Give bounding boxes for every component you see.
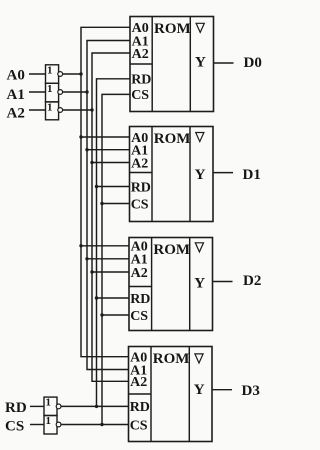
junction A1 bus bbox=[85, 90, 88, 93]
wire Y3 output bbox=[213, 281, 233, 283]
svg-text:Y: Y bbox=[195, 55, 206, 71]
svg-text:RD: RD bbox=[130, 292, 150, 307]
rom U2 bbox=[130, 127, 214, 222]
buffer A1 bbox=[46, 83, 63, 102]
buffer CS bbox=[44, 415, 61, 434]
svg-text:CS: CS bbox=[130, 418, 148, 433]
junction ROM3 A1 bbox=[85, 257, 88, 260]
rom U1 bbox=[130, 17, 214, 112]
wire A1 vertical bus bbox=[87, 41, 130, 370]
svg-text:D2: D2 bbox=[243, 273, 261, 289]
wire A0 vertical bus bbox=[81, 27, 130, 356]
wire Y4 output bbox=[212, 389, 232, 391]
svg-text:1: 1 bbox=[47, 64, 53, 76]
svg-text:A0: A0 bbox=[7, 68, 25, 84]
wire CS vertical bus bbox=[102, 94, 130, 424]
wire ROM3 RD branch bbox=[97, 297, 130, 299]
wire ROM3 A1 branch bbox=[87, 258, 129, 260]
wire RD buffer to ROM4 RD pin bbox=[61, 405, 128, 407]
svg-text:CS: CS bbox=[131, 88, 149, 103]
svg-text:CS: CS bbox=[131, 197, 149, 212]
svg-text:A2: A2 bbox=[131, 156, 148, 171]
wire RD vertical bus bbox=[97, 79, 131, 407]
svg-text:A2: A2 bbox=[132, 47, 149, 62]
wire A0 label to buffer bbox=[29, 73, 46, 75]
svg-text:CS: CS bbox=[5, 418, 24, 434]
junction ROM3 A0 bbox=[79, 244, 82, 247]
junction ROM2 A0 bbox=[79, 135, 82, 138]
wire ROM3 A2 branch bbox=[92, 271, 129, 273]
junction RD bus bbox=[95, 405, 98, 408]
svg-text:1: 1 bbox=[46, 397, 52, 409]
svg-text:A2: A2 bbox=[7, 106, 25, 122]
buffer RD bbox=[44, 397, 61, 416]
svg-text:A2: A2 bbox=[130, 375, 147, 390]
buffer A2 bbox=[46, 102, 63, 120]
rom U4 bbox=[129, 347, 213, 442]
wire ROM2 RD branch bbox=[97, 186, 130, 188]
wire Y1 output bbox=[214, 62, 234, 64]
svg-text:Y: Y bbox=[194, 382, 205, 398]
junction ROM3 CS bbox=[100, 313, 103, 316]
svg-text:1: 1 bbox=[47, 102, 53, 114]
junction ROM2 A1 bbox=[85, 148, 88, 151]
svg-text:1: 1 bbox=[47, 83, 53, 95]
wire buffer A0 output to bus bbox=[63, 73, 81, 75]
buffer A0 bbox=[46, 64, 63, 83]
svg-text:D3: D3 bbox=[242, 383, 260, 399]
svg-text:Y: Y bbox=[194, 276, 205, 292]
wire ROM3 A0 branch bbox=[81, 245, 129, 247]
svg-text:ROM: ROM bbox=[154, 131, 191, 147]
wire ROM2 A0 branch bbox=[81, 136, 130, 138]
svg-text:CS: CS bbox=[130, 309, 148, 324]
junction ROM2 CS bbox=[100, 202, 103, 205]
wire ROM3 CS branch bbox=[102, 314, 129, 316]
wire CS label to buffer bbox=[30, 424, 44, 426]
junction A2 bus bbox=[90, 108, 93, 111]
junction ROM2 RD bbox=[95, 185, 98, 188]
junction ROM3 RD bbox=[95, 296, 98, 299]
wire RD label to buffer bbox=[30, 405, 44, 407]
wire buffer A2 output to bus bbox=[63, 109, 92, 111]
svg-text:ROM: ROM bbox=[153, 351, 190, 367]
wire A1 label to buffer bbox=[29, 91, 46, 93]
junction A0 bus bbox=[79, 72, 82, 75]
svg-text:ROM: ROM bbox=[153, 242, 190, 258]
svg-text:ROM: ROM bbox=[154, 21, 191, 37]
svg-text:D0: D0 bbox=[244, 55, 262, 71]
svg-text:RD: RD bbox=[131, 73, 151, 88]
svg-text:RD: RD bbox=[130, 400, 150, 415]
junction ROM2 A2 bbox=[90, 161, 93, 164]
svg-text:RD: RD bbox=[5, 400, 27, 416]
svg-text:RD: RD bbox=[131, 180, 151, 195]
rom U3 bbox=[129, 238, 213, 331]
junction ROM3 A2 bbox=[90, 270, 93, 273]
wire ROM2 A1 branch bbox=[87, 149, 130, 151]
wire A2 label to buffer bbox=[29, 109, 46, 111]
wire A2 vertical bus bbox=[92, 53, 130, 381]
svg-text:A1: A1 bbox=[7, 87, 25, 103]
svg-text:A2: A2 bbox=[131, 266, 148, 281]
junction CS bus bbox=[100, 423, 103, 426]
svg-text:D1: D1 bbox=[243, 167, 261, 183]
wire ROM2 A2 branch bbox=[92, 162, 130, 164]
wire Y2 output bbox=[213, 172, 233, 174]
wire ROM2 CS branch bbox=[102, 203, 130, 205]
wire buffer A1 output to bus bbox=[63, 91, 87, 93]
svg-text:1: 1 bbox=[46, 415, 52, 427]
wire CS buffer to ROM4 CS pin bbox=[61, 424, 128, 426]
svg-text:Y: Y bbox=[195, 167, 206, 183]
